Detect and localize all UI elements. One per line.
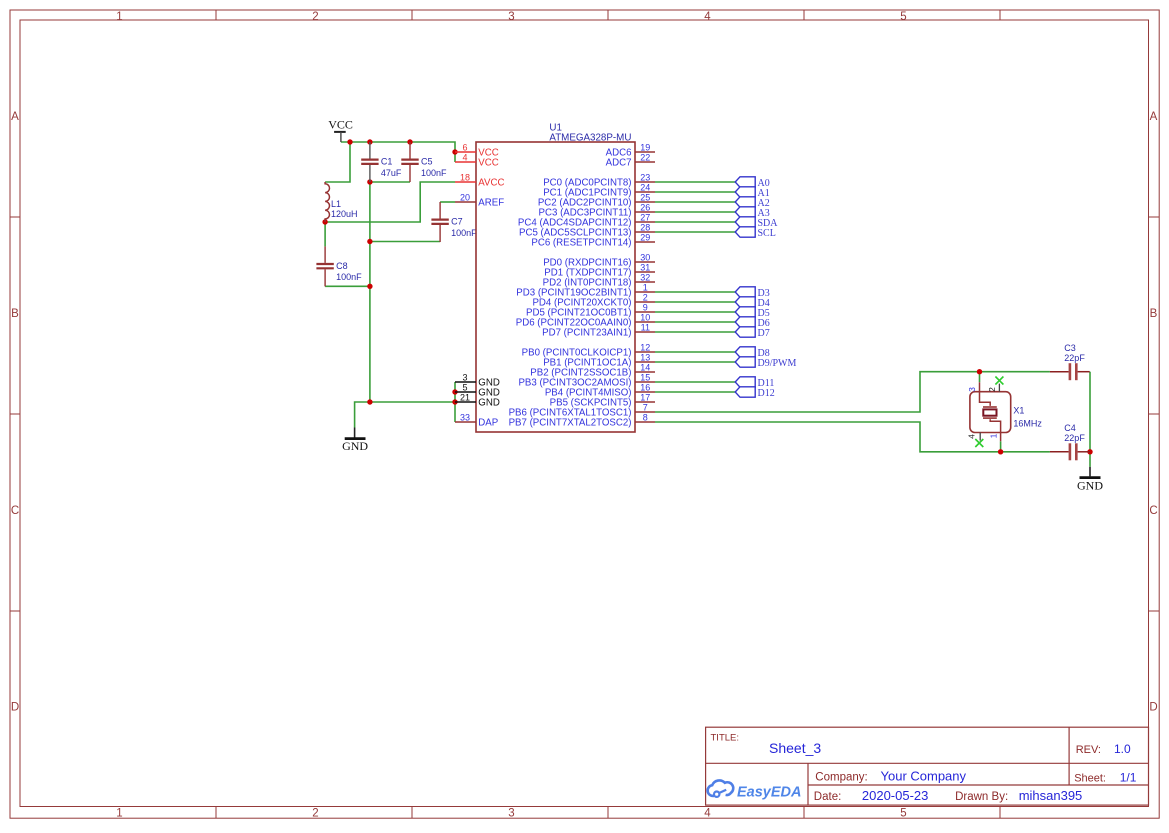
U1 pin 6 (VCC) left: [455, 142, 499, 158]
svg-text:120uH: 120uH: [331, 209, 358, 219]
EasyEDA logo: [708, 780, 802, 800]
wire crystal pin 1 stub: [1000, 441, 1002, 452]
svg-text:1.0: 1.0: [1114, 742, 1131, 756]
wire pin 9 to net flag D5: [655, 311, 735, 313]
wire pin 15 to net flag D11: [655, 381, 735, 383]
capacitor C3 22pF: [1050, 343, 1090, 380]
svg-text:C5: C5: [421, 157, 433, 167]
U1 pin 7 (PB6) right: [509, 402, 655, 418]
svg-text:B: B: [1150, 308, 1158, 320]
svg-text:14: 14: [640, 362, 650, 372]
capacitor C7 100nF: [431, 202, 477, 242]
wire pin 1 to net flag D3: [655, 291, 735, 293]
capacitor C5 100nF: [401, 142, 447, 182]
svg-text:mihsan395: mihsan395: [1019, 788, 1083, 803]
svg-text:C: C: [11, 505, 19, 517]
wire VCC rail to L1 top: [325, 142, 350, 182]
svg-text:3: 3: [462, 372, 467, 382]
wire GND vertical net (C1 column): [369, 182, 371, 402]
svg-text:A: A: [1150, 111, 1158, 123]
net flag D7: [735, 327, 770, 339]
U1 pin 3 (GND) left: [455, 372, 500, 388]
junction at (455,402): [452, 399, 457, 404]
wire C8 bottom rail: [325, 285, 370, 287]
junction at (979.5,371.7): [977, 369, 982, 374]
svg-text:7: 7: [643, 402, 648, 412]
svg-text:C4: C4: [1064, 423, 1076, 433]
svg-text:Sheet:: Sheet:: [1074, 772, 1106, 784]
svg-text:D: D: [1149, 701, 1157, 713]
wire C7 bottom rail: [370, 241, 440, 243]
junction at (369.9,182): [367, 179, 372, 184]
svg-text:PB7 (PCINT7XTAL2TOSC2): PB7 (PCINT7XTAL2TOSC2): [509, 418, 632, 429]
wire PB7 pin 8 to crystal bottom rail: [655, 422, 1050, 452]
capacitor C4 22pF: [1050, 423, 1090, 460]
svg-text:1/1: 1/1: [1120, 770, 1137, 784]
wire AREF pin 20 to C7 top: [440, 201, 455, 203]
svg-text:3: 3: [508, 807, 514, 819]
net flag A0: [735, 177, 770, 189]
U1 pin 15 (PB3) right: [518, 372, 655, 388]
svg-text:PC6 (RESETPCINT14): PC6 (RESETPCINT14): [531, 238, 631, 249]
U1 pin 22 (ADC7) right: [606, 152, 655, 168]
U1 pin 26 (PC3) right: [539, 202, 655, 218]
junction at (410,142): [407, 139, 412, 144]
U1 pin 13 (PB1) right: [543, 352, 655, 368]
wire pin 24 to net flag A1: [655, 191, 735, 193]
junction at (1000.6,451.8): [998, 449, 1003, 454]
svg-text:C8: C8: [336, 261, 348, 271]
svg-text:47uF: 47uF: [381, 168, 402, 178]
svg-text:22: 22: [640, 152, 650, 162]
wire GND rail to ground symbol: [355, 402, 455, 428]
svg-text:28: 28: [640, 222, 650, 232]
svg-text:GND: GND: [478, 398, 500, 409]
crystal X1 16MHz: [967, 382, 1043, 441]
junction at (369.9,286.3): [367, 284, 372, 289]
net flag A2: [735, 197, 770, 209]
svg-text:4: 4: [462, 152, 467, 162]
svg-text:1: 1: [989, 433, 999, 438]
U1 pin 17 (PB5) right: [550, 392, 655, 408]
svg-text:ATMEGA328P-MU: ATMEGA328P-MU: [549, 132, 631, 143]
svg-text:AVCC: AVCC: [478, 178, 504, 189]
ground GND left: [342, 428, 368, 453]
wire pin 2 to net flag D4: [655, 301, 735, 303]
svg-text:Company:: Company:: [815, 772, 867, 784]
svg-text:5: 5: [900, 807, 906, 819]
svg-text:23: 23: [640, 172, 650, 182]
svg-text:6: 6: [462, 142, 467, 152]
svg-text:D12: D12: [758, 388, 775, 399]
net flag D9/PWM: [735, 357, 796, 369]
capacitor C1 47uF: [361, 142, 402, 182]
svg-text:31: 31: [640, 262, 650, 272]
svg-text:C1: C1: [381, 157, 393, 167]
U1 pin 21 (GND) left: [455, 392, 500, 408]
capacitor C8 100nF: [316, 246, 362, 286]
wire C8 top lead from L1 junction: [324, 222, 326, 246]
wire pin 11 to net flag D7: [655, 331, 735, 333]
svg-text:A: A: [11, 111, 19, 123]
svg-text:REV:: REV:: [1076, 744, 1101, 756]
svg-text:EasyEDA: EasyEDA: [737, 785, 801, 801]
svg-text:11: 11: [641, 322, 650, 332]
svg-text:ADC7: ADC7: [606, 158, 632, 169]
wire C3-C4 right vertical to ground: [1089, 372, 1091, 467]
wire GND pins 3-5-21-33 vertical: [454, 382, 456, 422]
svg-text:16: 16: [640, 382, 650, 392]
IC U1 ATMEGA328P-MU body: [476, 123, 635, 432]
wire pin 10 to net flag D6: [655, 321, 735, 323]
U1 pin 8 (PB7) right: [509, 412, 655, 428]
power flag VCC: [328, 117, 353, 142]
svg-text:19: 19: [640, 142, 650, 152]
svg-text:PD7 (PCINT23AIN1): PD7 (PCINT23AIN1): [542, 328, 631, 339]
U1 pin 25 (PC2) right: [538, 192, 655, 208]
net flag SDA: [735, 217, 778, 229]
svg-text:24: 24: [640, 182, 650, 192]
junction at (325.1,222): [322, 219, 327, 224]
U1 pin 20 (AREF) left: [455, 192, 504, 208]
svg-text:D7: D7: [758, 328, 770, 339]
ground GND right: [1077, 467, 1103, 493]
svg-text:2: 2: [312, 11, 318, 23]
svg-text:100nF: 100nF: [421, 168, 447, 178]
wire pin 12 to net flag D8: [655, 351, 735, 353]
svg-text:DAP: DAP: [478, 418, 498, 429]
svg-text:4: 4: [704, 807, 711, 819]
junction at (455,392): [452, 389, 457, 394]
no-connect crystal pin 2: [995, 377, 1003, 392]
svg-text:18: 18: [460, 172, 470, 182]
svg-text:GND: GND: [342, 439, 368, 453]
svg-text:13: 13: [640, 352, 650, 362]
net flag D5: [735, 307, 770, 319]
svg-text:Sheet_3: Sheet_3: [769, 740, 821, 756]
svg-text:L1: L1: [331, 199, 341, 209]
svg-text:4: 4: [704, 11, 711, 23]
svg-text:2: 2: [643, 292, 648, 302]
junction at (369.9,402): [367, 399, 372, 404]
wire pin 26 to net flag A3: [655, 211, 735, 213]
junction at (350,142): [347, 139, 352, 144]
svg-text:5: 5: [462, 382, 467, 392]
net flag D11: [735, 377, 774, 389]
svg-text:TITLE:: TITLE:: [711, 733, 740, 744]
wire pin 28 to net flag SCL: [655, 231, 735, 233]
svg-text:C: C: [1149, 505, 1157, 517]
U1 pin 4 (VCC) left: [455, 152, 499, 168]
svg-text:4: 4: [967, 434, 977, 439]
net flag A1: [735, 187, 770, 199]
junction at (369.9,142): [367, 139, 372, 144]
junction at (1090,451.8): [1087, 449, 1092, 454]
svg-text:Date:: Date:: [814, 791, 842, 803]
svg-text:2: 2: [312, 807, 318, 819]
U1 pin 10 (PD6) right: [516, 312, 655, 328]
U1 pin 11 (PD7) right: [542, 322, 655, 338]
svg-text:22pF: 22pF: [1064, 353, 1085, 363]
no-connect crystal pin 4: [975, 433, 983, 448]
net flag D12: [735, 387, 775, 399]
svg-text:VCC: VCC: [328, 117, 353, 131]
svg-text:1: 1: [643, 282, 648, 292]
U1 pin 32 (PD2) right: [543, 272, 655, 288]
svg-text:1: 1: [116, 11, 122, 23]
svg-text:Your Company: Your Company: [881, 769, 967, 784]
U1 pin 2 (PD4) right: [532, 292, 655, 308]
svg-text:D: D: [11, 701, 19, 713]
U1 pin 27 (PC4) right: [518, 212, 655, 228]
svg-text:5: 5: [900, 11, 906, 23]
U1 pin 9 (PD5) right: [526, 302, 655, 318]
svg-text:D9/PWM: D9/PWM: [758, 358, 797, 369]
svg-text:C3: C3: [1064, 343, 1076, 353]
wire VCC top rail: [341, 142, 455, 162]
svg-text:20: 20: [460, 192, 470, 202]
U1 pin 33 (DAP) left: [455, 412, 498, 428]
svg-text:VCC: VCC: [478, 158, 498, 169]
U1 pin 5 (GND) left: [455, 382, 500, 398]
U1 pin 18 (AVCC) left: [455, 172, 505, 188]
U1 pin 14 (PB2) right: [530, 362, 655, 378]
svg-text:X1: X1: [1013, 406, 1024, 416]
net flag D3: [735, 287, 770, 299]
U1 pin 12 (PB0) right: [522, 342, 655, 358]
svg-text:2020-05-23: 2020-05-23: [862, 788, 929, 803]
svg-text:GND: GND: [1077, 479, 1103, 493]
net flag D4: [735, 297, 770, 309]
U1 pin 24 (PC1) right: [543, 182, 655, 198]
U1 pin 19 (ADC6) right: [606, 142, 655, 158]
svg-text:10: 10: [640, 312, 650, 322]
svg-text:C7: C7: [451, 217, 463, 227]
wire L1 bottom to AVCC pin 18: [325, 182, 455, 222]
junction at (369.9,241.5): [367, 239, 372, 244]
U1 pin 29 (PC6) right: [531, 232, 655, 248]
U1 pin 16 (PB4) right: [545, 382, 655, 398]
svg-text:SCL: SCL: [758, 228, 776, 239]
net flag SCL: [735, 227, 776, 239]
U1 pin 30 (PD0) right: [543, 252, 655, 268]
svg-text:12: 12: [640, 342, 650, 352]
svg-text:33: 33: [460, 412, 470, 422]
wire pin 25 to net flag A2: [655, 201, 735, 203]
wire crystal pin 3 stub: [979, 372, 981, 383]
inductor L1 120uH: [325, 182, 357, 222]
wire pin 16 to net flag D12: [655, 391, 735, 393]
net flag D8: [735, 347, 770, 359]
U1 pin 28 (PC5) right: [519, 222, 655, 238]
wire pin 13 to net flag D9/PWM: [655, 361, 735, 363]
svg-text:26: 26: [640, 202, 650, 212]
svg-text:100nF: 100nF: [336, 272, 362, 282]
svg-text:27: 27: [640, 212, 650, 222]
net flag A3: [735, 207, 770, 219]
svg-text:3: 3: [967, 387, 977, 392]
svg-text:Drawn By:: Drawn By:: [955, 791, 1008, 803]
svg-text:2: 2: [987, 387, 997, 392]
wire pin 23 to net flag A0: [655, 181, 735, 183]
U1 pin 1 (PD3) right: [516, 282, 655, 298]
U1 pin 23 (PC0) right: [543, 172, 655, 188]
svg-text:B: B: [11, 308, 19, 320]
svg-text:21: 21: [460, 392, 470, 402]
svg-text:25: 25: [640, 192, 650, 202]
junction at (455,152): [452, 149, 457, 154]
wire C1 bottom to C5 bottom: [370, 181, 410, 183]
svg-text:9: 9: [643, 302, 648, 312]
svg-text:32: 32: [640, 272, 650, 282]
svg-text:100nF: 100nF: [451, 228, 477, 238]
svg-text:AREF: AREF: [478, 198, 504, 209]
svg-text:30: 30: [640, 252, 650, 262]
net flag D6: [735, 317, 770, 329]
title block: [706, 727, 1149, 805]
svg-text:16MHz: 16MHz: [1013, 418, 1042, 428]
svg-text:15: 15: [640, 372, 650, 382]
wire pin 27 to net flag SDA: [655, 221, 735, 223]
svg-text:22pF: 22pF: [1064, 433, 1085, 443]
U1 pin 31 (PD1) right: [544, 262, 655, 278]
svg-text:8: 8: [643, 412, 648, 422]
svg-text:1: 1: [116, 807, 122, 819]
svg-text:29: 29: [640, 232, 650, 242]
svg-text:17: 17: [640, 392, 650, 402]
wire PB6 pin 7 to crystal top rail: [655, 372, 1050, 412]
svg-text:3: 3: [508, 11, 514, 23]
